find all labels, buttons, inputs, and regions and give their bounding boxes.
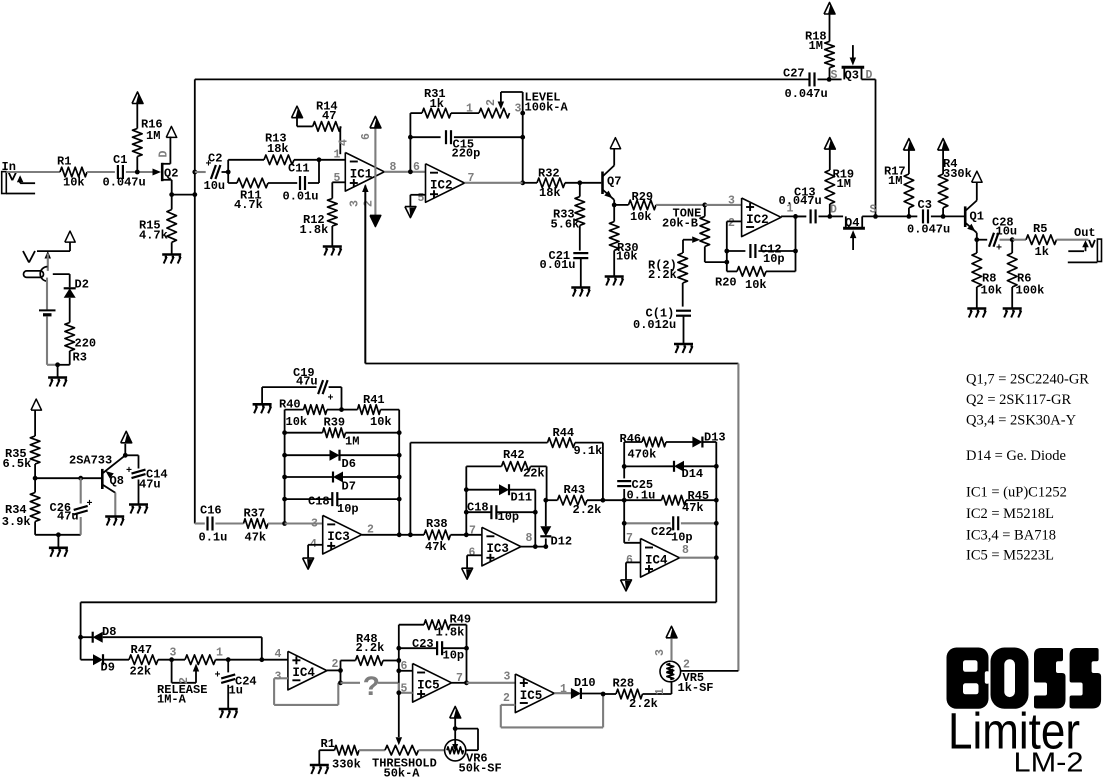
node Q2 source — [169, 192, 174, 197]
svg-text:1M-A: 1M-A — [157, 693, 187, 707]
wire — [624, 499, 661, 501]
wire control横 — [365, 363, 738, 365]
wire R49 right — [450, 624, 467, 626]
wire feed rail — [194, 79, 196, 523]
logo BOSS — [947, 648, 989, 709]
wire fb rail IC2b — [795, 216, 797, 271]
wire IC2b pin2 — [727, 220, 742, 222]
wire D8 drop — [261, 637, 263, 660]
wire — [342, 409, 358, 411]
ground R6 — [1003, 307, 1022, 310]
svg-text:10p: 10p — [498, 510, 520, 524]
diode D6 — [330, 450, 340, 461]
wire — [346, 432, 400, 434]
svg-text:18k: 18k — [539, 186, 561, 200]
diode D13 — [692, 437, 702, 448]
svg-text:10u: 10u — [996, 225, 1018, 239]
wire — [228, 159, 264, 161]
capacitor C15 — [445, 130, 447, 144]
power arrow R18 — [828, 4, 835, 14]
svg-text:Q1,7 = 2SC2240-GR: Q1,7 = 2SC2240-GR — [966, 372, 1089, 388]
wire — [829, 78, 842, 80]
power arrow R14 — [296, 108, 303, 118]
wire — [332, 181, 345, 183]
potentiometer TONE — [700, 216, 710, 246]
wire C25 rail — [623, 442, 625, 466]
svg-text:47u: 47u — [139, 478, 161, 492]
capacitor C13 — [809, 209, 811, 223]
wire — [103, 659, 129, 661]
diode D9 — [93, 654, 103, 665]
svg-text:3: 3 — [170, 647, 177, 660]
svg-text:D: D — [830, 204, 837, 217]
svg-text:1.8k: 1.8k — [436, 626, 465, 640]
resistor R38 — [424, 530, 451, 540]
transistor Q4 — [843, 227, 865, 230]
svg-text:6.5k: 6.5k — [3, 457, 32, 471]
wire — [451, 112, 479, 114]
svg-text:2SA733: 2SA733 — [69, 454, 112, 468]
svg-text:+: + — [87, 499, 93, 510]
resistor R31 — [422, 108, 451, 118]
svg-text:Out: Out — [1074, 226, 1096, 240]
wire plug-battery — [46, 278, 48, 310]
input jack In — [2, 172, 7, 194]
svg-text:R41: R41 — [363, 393, 385, 407]
node D12 bottom — [543, 544, 548, 549]
transistor Q2 — [153, 169, 162, 176]
power arrow R16 — [136, 94, 143, 104]
svg-text:R46: R46 — [620, 432, 642, 446]
svg-text:1M: 1M — [345, 435, 359, 449]
wire — [327, 669, 341, 671]
svg-text:470k: 470k — [628, 448, 657, 462]
power open triangle Q7 — [610, 138, 621, 149]
node C13-R19 — [827, 214, 832, 219]
op-amp IC2a — [426, 164, 465, 203]
svg-text:C18: C18 — [467, 501, 489, 515]
node railL R39 — [282, 430, 287, 435]
wire control down — [737, 364, 739, 671]
wire — [575, 442, 603, 444]
svg-text:D14 = Ge. Diode: D14 = Ge. Diode — [966, 448, 1066, 464]
capacitor C19 — [318, 380, 323, 394]
svg-text:R20: R20 — [715, 276, 737, 290]
wire R44 riser — [409, 443, 411, 535]
wire IC4a out drop — [340, 670, 342, 682]
svg-text:4.7k: 4.7k — [234, 198, 263, 212]
resistor R29 — [629, 200, 657, 210]
wire supply — [69, 242, 71, 251]
svg-text:3: 3 — [311, 518, 318, 531]
op-amp IC5b — [515, 674, 554, 713]
resistor R49 — [424, 620, 450, 630]
wire — [419, 749, 445, 751]
capacitor C21 — [573, 252, 588, 254]
svg-text:IC4: IC4 — [292, 666, 315, 680]
node IC4a out — [338, 668, 343, 673]
diode D8 — [93, 632, 103, 643]
svg-text:0.01u: 0.01u — [283, 190, 319, 204]
resistor R33 — [575, 197, 585, 226]
node top tap — [192, 170, 197, 175]
svg-text:2: 2 — [503, 692, 510, 705]
wire VR5 pin3 — [670, 639, 672, 661]
ground Q8 — [105, 515, 124, 518]
svg-text:R39: R39 — [324, 416, 346, 430]
svg-text:1: 1 — [216, 647, 223, 660]
capacitor C18a — [331, 492, 333, 506]
capacitor C27 — [808, 72, 810, 86]
wire rail IC3b fb — [465, 466, 467, 534]
wire — [341, 660, 356, 662]
resistor R1b — [335, 745, 360, 755]
svg-text:8: 8 — [390, 161, 397, 174]
wire C19 right — [329, 386, 342, 388]
node rail D14 — [714, 464, 719, 469]
resistor R14 — [313, 122, 341, 132]
wire D12 top — [545, 500, 547, 526]
resistor R6 — [1007, 253, 1017, 287]
svg-text:R47: R47 — [131, 643, 153, 657]
node C28-R6 — [1010, 237, 1015, 242]
node R44 tap — [408, 532, 413, 537]
wire — [931, 215, 943, 217]
ground R15 — [162, 253, 181, 256]
svg-text:IC4: IC4 — [645, 553, 668, 567]
resistor R20 — [737, 267, 766, 277]
wire — [81, 636, 93, 638]
resistor R45 — [662, 495, 687, 505]
wire — [1057, 239, 1089, 241]
svg-text:IC2 = M5218L: IC2 = M5218L — [966, 506, 1054, 522]
svg-text:2.2k: 2.2k — [573, 503, 602, 517]
svg-text:IC5: IC5 — [520, 689, 543, 703]
wire — [338, 498, 400, 500]
svg-text:R40: R40 — [279, 398, 301, 412]
vee arrow IC2a — [409, 208, 416, 218]
svg-text:7: 7 — [626, 532, 633, 545]
svg-text:IC2: IC2 — [746, 213, 769, 227]
transistor Q8 — [101, 469, 104, 489]
node D10-R28 — [601, 692, 606, 697]
resistor R4 — [938, 174, 948, 208]
svg-text:6: 6 — [626, 554, 633, 567]
svg-text:100k: 100k — [1016, 284, 1045, 298]
wire — [383, 660, 399, 662]
wire VR6 loop — [455, 728, 478, 730]
wire IC1 pin3 — [364, 186, 366, 364]
power arrow VR6 — [454, 708, 461, 718]
svg-text:47u: 47u — [57, 510, 79, 524]
wire C14 col — [138, 455, 140, 468]
svg-text:D9: D9 — [101, 661, 115, 675]
svg-text:10u: 10u — [204, 179, 226, 193]
wire — [69, 298, 71, 323]
wire — [331, 182, 333, 198]
svg-text:IC1 = (uP)C1252: IC1 = (uP)C1252 — [966, 485, 1067, 501]
svg-text:0.047u: 0.047u — [103, 176, 146, 190]
node rail C22 — [714, 521, 719, 526]
wire IC3a pin4 — [308, 544, 323, 546]
svg-text:1M: 1M — [888, 174, 902, 188]
wire — [977, 239, 987, 241]
capacitor C18b — [490, 505, 492, 519]
capacitor C24 — [221, 674, 235, 678]
wire — [294, 159, 319, 161]
power arrow R4 — [942, 140, 949, 150]
svg-text:3: 3 — [728, 195, 735, 208]
wire — [308, 182, 319, 184]
wire — [781, 215, 806, 217]
wire — [136, 104, 138, 129]
capacitor C12 — [749, 244, 751, 258]
wire — [704, 205, 706, 217]
svg-text:0.047u: 0.047u — [907, 223, 950, 237]
wire — [829, 68, 831, 80]
svg-text:R38: R38 — [426, 517, 448, 531]
wire — [624, 465, 674, 467]
svg-text:IC3: IC3 — [327, 530, 350, 544]
svg-text:IC5 = M5223L: IC5 = M5223L — [966, 548, 1054, 564]
svg-text:C27: C27 — [783, 67, 805, 81]
svg-text:1k: 1k — [1035, 245, 1049, 259]
node R44-R43 — [601, 498, 606, 503]
svg-text:R42: R42 — [503, 448, 525, 462]
svg-text:D8: D8 — [102, 625, 116, 639]
node railL C18 — [282, 497, 287, 502]
resistor R18 — [825, 41, 835, 67]
node IC2a in — [408, 169, 413, 174]
node TONE top — [702, 203, 707, 208]
svg-text:1M: 1M — [146, 129, 160, 143]
node C19-R40 — [339, 407, 344, 412]
node feed — [192, 192, 197, 197]
resistor R15 — [167, 210, 177, 243]
power arrow R17 — [907, 140, 914, 150]
wire — [296, 118, 298, 127]
transistor Q1 — [964, 206, 967, 227]
wire — [613, 250, 615, 276]
resistor R44 — [548, 438, 576, 448]
diode D2 — [64, 288, 76, 298]
svg-text:C3: C3 — [918, 198, 932, 212]
wire control corner — [364, 186, 366, 364]
svg-text:6: 6 — [401, 660, 408, 673]
diode D14 — [674, 461, 684, 472]
wire — [467, 682, 516, 684]
op-amp IC1 — [345, 153, 384, 192]
svg-text:1M: 1M — [809, 39, 823, 53]
power arrow R19 — [828, 139, 835, 149]
wire R49 left — [398, 625, 400, 649]
wire — [454, 718, 456, 729]
potentiometer THRESHOLD — [385, 745, 419, 755]
node C3-R4 — [941, 214, 946, 219]
op-amp IC4a — [288, 651, 327, 690]
wire — [410, 112, 422, 114]
wire — [87, 171, 115, 173]
svg-text:50k-A: 50k-A — [384, 767, 421, 781]
node D8 tap — [78, 635, 83, 640]
wire — [466, 489, 499, 491]
wire — [908, 151, 910, 175]
capacitor C26 — [74, 506, 88, 510]
capacitor C25 — [617, 480, 631, 482]
svg-text:IC1: IC1 — [350, 167, 373, 181]
svg-text:4.7k: 4.7k — [139, 229, 168, 243]
svg-text:D11: D11 — [511, 491, 533, 505]
wire — [819, 215, 830, 217]
svg-text:10p: 10p — [443, 649, 465, 663]
svg-text:D: D — [158, 151, 171, 158]
svg-text:4: 4 — [275, 648, 282, 661]
wire — [451, 534, 482, 536]
wire — [466, 511, 491, 513]
svg-text:1: 1 — [654, 688, 667, 695]
node railR R39 — [397, 430, 402, 435]
wire — [666, 441, 694, 443]
wire plug right — [53, 273, 70, 275]
power open triangle Q2 drain — [166, 126, 177, 137]
wire — [579, 183, 581, 197]
potentiometer LEVEL — [479, 108, 510, 118]
svg-text:6: 6 — [360, 133, 373, 140]
node C25-D14 — [622, 464, 627, 469]
node Q3-out — [873, 214, 878, 219]
svg-text:2: 2 — [485, 99, 498, 106]
svg-text:R1: R1 — [57, 155, 71, 169]
capacitor C(1) — [676, 310, 691, 312]
wire — [727, 270, 737, 272]
wire rail R — [398, 410, 400, 535]
capacitor C11 — [299, 176, 301, 190]
wire level rail — [522, 113, 524, 183]
svg-text:IC3,4 = BA718: IC3,4 = BA718 — [966, 528, 1056, 544]
node C27-Q3 — [827, 77, 832, 82]
wire battery down — [46, 316, 48, 364]
wire — [465, 182, 523, 184]
wire — [579, 225, 581, 250]
ground R12 — [323, 245, 342, 248]
wire — [331, 226, 333, 247]
wire — [227, 160, 229, 183]
wire — [126, 171, 153, 173]
node railfb D11 — [464, 487, 469, 492]
power open triangle R35 — [31, 399, 42, 410]
wire — [285, 476, 333, 478]
svg-text:R3: R3 — [73, 351, 87, 365]
wire Q3 drain down — [875, 79, 877, 216]
wire — [683, 317, 685, 344]
wire IC4b pin6 — [626, 561, 641, 563]
svg-text:Q3: Q3 — [845, 69, 859, 83]
node Q7 emitter — [612, 203, 617, 208]
node pin5 — [396, 690, 401, 695]
resistor R42 — [502, 462, 531, 472]
wire — [829, 14, 831, 41]
ground C21 — [571, 286, 590, 289]
power arrow VR5 — [670, 628, 677, 638]
power rail IC1 pin6-2 — [374, 128, 376, 216]
svg-text:2: 2 — [332, 658, 339, 671]
node VR6 top — [453, 726, 458, 731]
svg-text:10k: 10k — [63, 176, 85, 190]
wire — [521, 546, 546, 548]
svg-text:5: 5 — [334, 172, 341, 185]
svg-text:10p: 10p — [337, 502, 359, 516]
wire IC4a pin3 — [274, 677, 288, 679]
svg-text:1: 1 — [334, 149, 341, 162]
svg-text:R28: R28 — [613, 677, 635, 691]
capacitor C23 — [436, 641, 438, 655]
wire — [758, 250, 795, 252]
wire Q8 collector — [114, 493, 116, 517]
resistor R48 — [356, 656, 384, 666]
wire out rail — [715, 442, 717, 602]
svg-text:R37: R37 — [244, 507, 266, 521]
resistor R28 — [616, 689, 643, 699]
wire — [262, 659, 288, 661]
node C15 right — [520, 135, 525, 140]
svg-text:+: + — [126, 466, 132, 477]
node C26 top — [78, 476, 83, 481]
wire — [829, 204, 831, 216]
svg-text:+: + — [328, 394, 334, 405]
wire — [656, 204, 705, 206]
svg-text:Q7: Q7 — [607, 175, 621, 189]
power open triangle supply — [65, 231, 75, 242]
wire — [340, 454, 400, 456]
svg-text:10k: 10k — [630, 210, 652, 224]
wire IC5b pin2 — [501, 704, 516, 706]
diode D12 — [540, 526, 551, 536]
node C25-C22 — [622, 521, 627, 526]
ground battery — [48, 376, 67, 379]
svg-text:1u: 1u — [229, 684, 243, 698]
wire — [1012, 239, 1026, 241]
ground C14 — [129, 503, 148, 506]
svg-text:R1: R1 — [321, 737, 335, 751]
wire — [381, 409, 400, 411]
node rail R45 — [714, 498, 719, 503]
svg-text:6: 6 — [469, 547, 476, 560]
svg-text:IC5: IC5 — [417, 678, 440, 692]
svg-text:5.6k: 5.6k — [551, 218, 580, 232]
svg-text:?: ? — [363, 673, 380, 704]
wire rectifier left — [80, 602, 82, 659]
wire — [327, 409, 342, 411]
resistor R12 — [328, 199, 338, 227]
wire — [908, 208, 910, 217]
node railfb C18b — [464, 510, 469, 515]
node C12 right — [793, 249, 798, 254]
wire IC5a rail — [398, 648, 400, 693]
svg-text:0.01u: 0.01u — [540, 258, 576, 272]
wire — [613, 205, 615, 222]
wire — [81, 659, 93, 661]
wire IC5a pin6 — [399, 670, 413, 672]
wire — [195, 171, 206, 173]
svg-text:50k-SF: 50k-SF — [459, 762, 502, 776]
node rail pin6 — [396, 668, 401, 673]
svg-text:C1: C1 — [113, 153, 127, 167]
ground R1b — [310, 764, 329, 767]
svg-text:+: + — [215, 671, 221, 682]
wire — [339, 126, 341, 154]
diode D11 — [499, 484, 509, 495]
svg-text:10k: 10k — [370, 415, 392, 429]
